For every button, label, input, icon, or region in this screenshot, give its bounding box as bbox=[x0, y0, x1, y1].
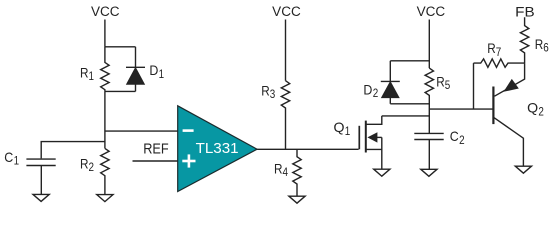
svg-text:1: 1 bbox=[345, 126, 351, 138]
label C1 bbox=[4, 149, 19, 168]
svg-text:R: R bbox=[535, 36, 544, 52]
svg-text:VCC: VCC bbox=[417, 4, 446, 19]
svg-text:2: 2 bbox=[373, 88, 379, 100]
label Q2 bbox=[527, 100, 544, 119]
diode D2 bbox=[381, 61, 400, 104]
resistor R7 bbox=[474, 59, 525, 67]
svg-text:R: R bbox=[436, 73, 445, 89]
svg-text:1: 1 bbox=[14, 156, 20, 168]
wire op-amp output bbox=[257, 148, 359, 150]
wire R7 left to base node bbox=[473, 63, 475, 109]
wire VCC2 down bbox=[285, 20, 287, 81]
svg-text:D: D bbox=[149, 62, 158, 78]
ground under C1 bbox=[33, 194, 49, 201]
wire branch to D1 top bbox=[105, 46, 136, 48]
svg-text:1: 1 bbox=[89, 71, 95, 83]
svg-text:R: R bbox=[487, 40, 496, 56]
wire node vertical bbox=[104, 91, 106, 148]
svg-text:R: R bbox=[80, 64, 89, 80]
svg-text:R: R bbox=[80, 155, 89, 171]
node VCC3 label bbox=[417, 4, 446, 19]
resistor R5 bbox=[425, 68, 433, 133]
node VCC2 label bbox=[272, 4, 301, 19]
wire VCC3 down bbox=[428, 20, 430, 69]
resistor R1 bbox=[101, 47, 109, 92]
svg-text:R: R bbox=[261, 83, 270, 99]
wire to op-amp minus input bbox=[105, 130, 178, 132]
resistor R2 bbox=[101, 148, 109, 194]
svg-text:C: C bbox=[450, 128, 459, 144]
op-amp U1 TL331 bbox=[178, 106, 257, 192]
label REF bbox=[143, 141, 169, 158]
svg-text:FB: FB bbox=[515, 4, 535, 19]
svg-text:D: D bbox=[363, 82, 372, 98]
node FB label bbox=[515, 4, 535, 19]
label R2 bbox=[80, 155, 94, 174]
svg-text:REF: REF bbox=[143, 141, 169, 158]
wire REF to plus input bbox=[133, 160, 178, 162]
wire D2 anode to node bbox=[390, 103, 429, 105]
svg-text:R: R bbox=[274, 161, 283, 177]
label R5 bbox=[436, 73, 450, 92]
ground under Q1 bbox=[374, 169, 390, 176]
transistor Q1 (MOSFET) bbox=[359, 116, 382, 169]
capacitor C1 bbox=[26, 159, 55, 194]
wire branch to D2 bbox=[390, 60, 429, 62]
resistor R3 bbox=[281, 81, 289, 150]
svg-text:4: 4 bbox=[283, 167, 289, 179]
capacitor C2 bbox=[414, 133, 443, 169]
wire node to Q2 base bbox=[429, 108, 493, 110]
label D1 bbox=[149, 62, 164, 81]
svg-text:2: 2 bbox=[89, 162, 95, 174]
label R1 bbox=[80, 64, 94, 83]
svg-text:7: 7 bbox=[496, 47, 502, 59]
wire VCC1 down bbox=[104, 20, 106, 47]
resistor R6 bbox=[520, 17, 528, 63]
transistor Q2 (PNP) bbox=[493, 63, 524, 166]
node VCC1 label bbox=[91, 4, 120, 19]
svg-text:1: 1 bbox=[159, 69, 165, 81]
label Q1 bbox=[334, 119, 351, 138]
svg-text:VCC: VCC bbox=[91, 4, 120, 19]
label R3 bbox=[261, 83, 275, 102]
ground under Q2 bbox=[515, 166, 531, 173]
label R7 bbox=[487, 40, 501, 59]
svg-text:2: 2 bbox=[459, 135, 465, 147]
svg-text:6: 6 bbox=[543, 42, 549, 54]
svg-text:3: 3 bbox=[270, 89, 276, 101]
wire D1 bottom branch bbox=[105, 90, 136, 92]
svg-text:Q: Q bbox=[527, 100, 538, 116]
label R4 bbox=[274, 161, 289, 180]
label R6 bbox=[535, 36, 549, 55]
diode D1 bbox=[126, 47, 145, 92]
wire Q1 drain to node bbox=[382, 115, 430, 117]
svg-text:5: 5 bbox=[445, 80, 451, 92]
svg-text:C: C bbox=[4, 149, 13, 165]
ground under C2 bbox=[421, 169, 437, 176]
ground under R2 bbox=[97, 195, 113, 202]
label D2 bbox=[363, 82, 378, 101]
label C2 bbox=[450, 128, 465, 147]
svg-text:Q: Q bbox=[334, 119, 345, 135]
ground under R4 bbox=[289, 196, 305, 203]
wire to C1 bbox=[41, 142, 105, 159]
svg-text:2: 2 bbox=[538, 107, 544, 119]
svg-text:TL331: TL331 bbox=[196, 141, 239, 157]
svg-text:VCC: VCC bbox=[272, 4, 301, 19]
resistor R4 bbox=[293, 149, 301, 196]
